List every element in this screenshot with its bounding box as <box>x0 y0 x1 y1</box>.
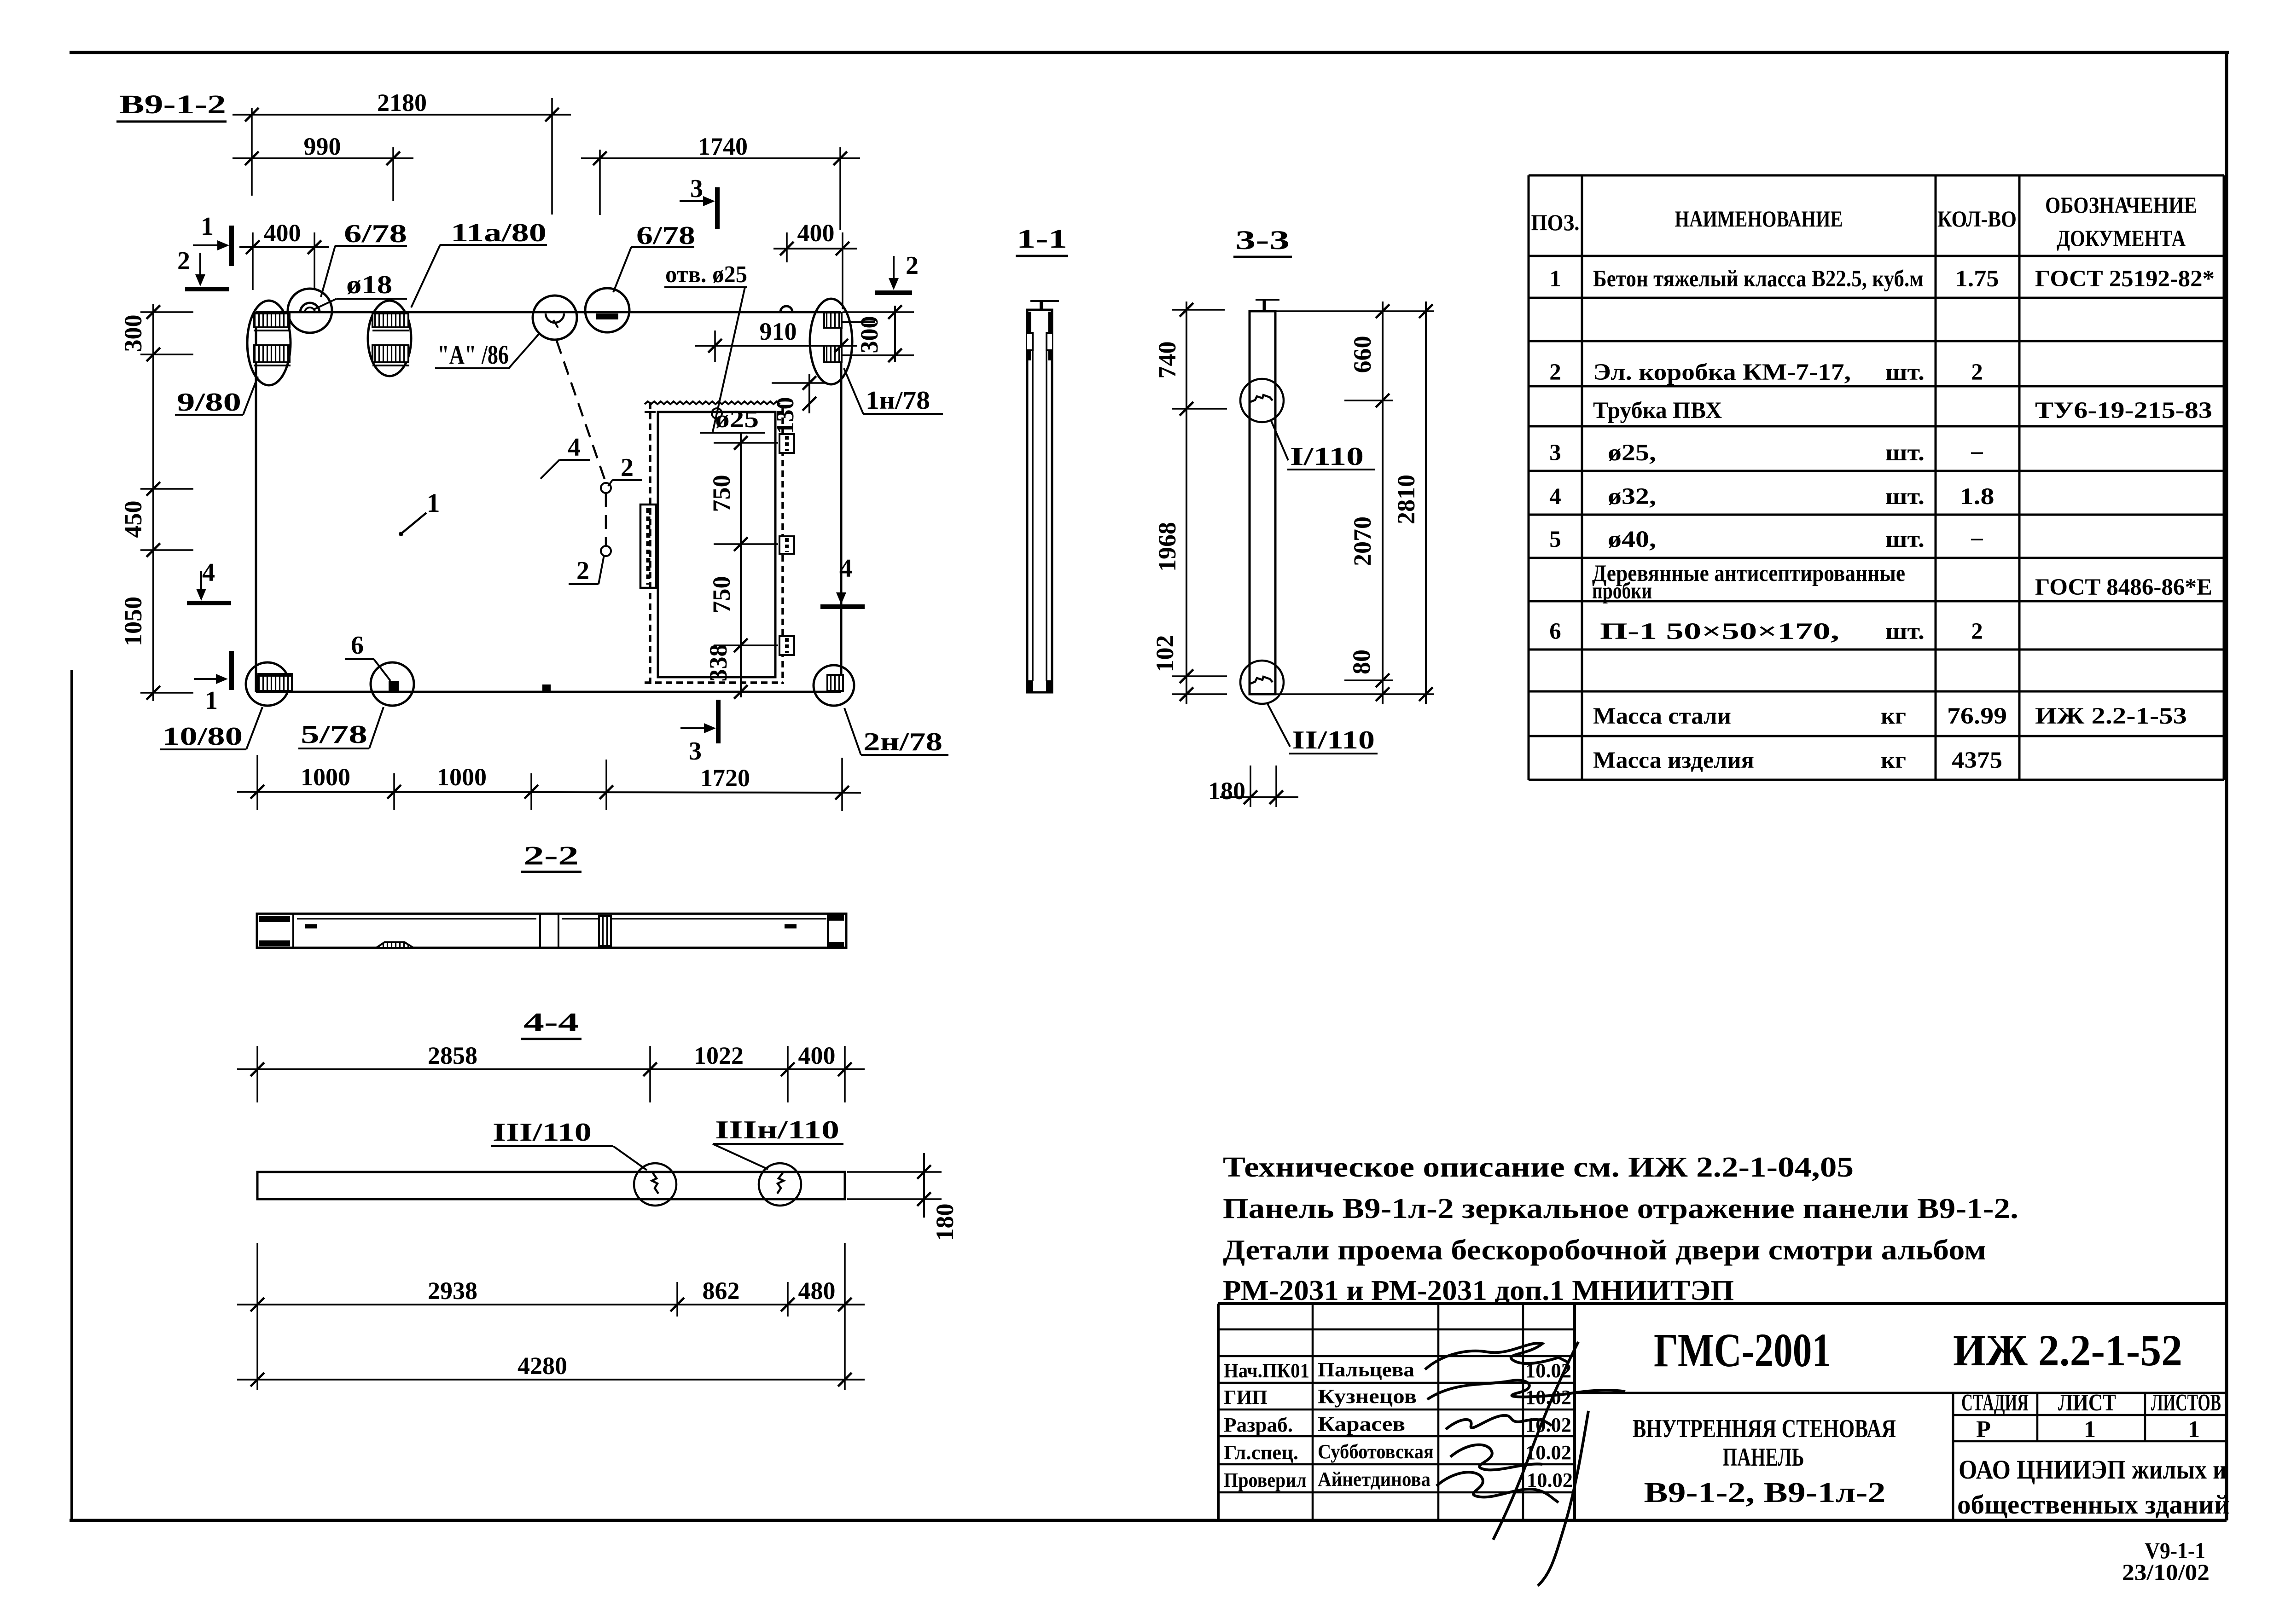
svg-text:300: 300 <box>119 315 147 352</box>
section 1-1 bottom marks <box>1027 680 1033 691</box>
signature Ainetdinova <box>1436 1472 1558 1502</box>
dim 300 right <box>843 311 914 313</box>
section 4-4 dim 180 <box>847 1171 942 1173</box>
svg-text:1720: 1720 <box>700 764 750 792</box>
svg-text:Нач.ПК01: Нач.ПК01 <box>1224 1359 1309 1382</box>
svg-text:2: 2 <box>1549 360 1561 385</box>
dim 400 right <box>786 232 788 262</box>
svg-text:III/110: III/110 <box>493 1118 592 1147</box>
svg-text:Разраб.: Разраб. <box>1224 1414 1293 1436</box>
svg-text:шт.: шт. <box>1885 484 1925 510</box>
detail circle II/110 <box>1240 661 1284 704</box>
svg-text:Субботовская: Субботовская <box>1318 1440 1434 1463</box>
svg-text:6: 6 <box>1549 619 1561 644</box>
svg-text:2: 2 <box>576 557 589 585</box>
svg-text:СТАДИЯ: СТАДИЯ <box>1961 1390 2029 1416</box>
dim 400 left <box>252 232 254 290</box>
svg-text:кг: кг <box>1881 748 1906 773</box>
svg-text:9/80: 9/80 <box>177 388 241 417</box>
title block stage box <box>1952 1393 1954 1520</box>
svg-text:1.8: 1.8 <box>1960 484 1994 510</box>
svg-text:23/10/02: 23/10/02 <box>2122 1559 2210 1585</box>
svg-text:6/78: 6/78 <box>344 220 407 248</box>
door opening zigzag top edge <box>645 401 780 404</box>
section 3-3 overall dim 2810 <box>1425 302 1427 704</box>
svg-text:ЛИСТОВ: ЛИСТОВ <box>2151 1390 2221 1416</box>
svg-text:шт.: шт. <box>1885 360 1925 385</box>
svg-text:4-4: 4-4 <box>523 1007 579 1037</box>
dim 910 <box>714 331 716 362</box>
svg-text:2: 2 <box>1971 360 1983 385</box>
svg-text:11а/80: 11а/80 <box>451 219 547 247</box>
svg-text:В9-1-2: В9-1-2 <box>119 89 226 119</box>
section 2-2 bar <box>257 914 846 948</box>
svg-text:ГМС-2001: ГМС-2001 <box>1654 1324 1831 1377</box>
svg-text:ЛИСТ: ЛИСТ <box>2058 1390 2116 1416</box>
svg-text:2: 2 <box>1971 619 1983 644</box>
svg-text:ДОКУМЕНТА: ДОКУМЕНТА <box>2057 225 2186 251</box>
detail circle 6/78 no.1 <box>288 289 332 333</box>
svg-text:Пальцева: Пальцева <box>1318 1358 1414 1381</box>
svg-text:Карасев: Карасев <box>1318 1413 1405 1435</box>
svg-text:1000: 1000 <box>437 763 487 791</box>
svg-text:4375: 4375 <box>1952 748 2002 773</box>
svg-text:пробки: пробки <box>1592 578 1652 604</box>
dim 1740 <box>599 150 601 215</box>
svg-text:Айнетдинова: Айнетдинова <box>1318 1468 1430 1491</box>
svg-text:750: 750 <box>708 576 735 614</box>
svg-text:Р: Р <box>1976 1416 1991 1443</box>
svg-text:6: 6 <box>351 631 364 660</box>
section 1-1 waist notches <box>1027 333 1033 350</box>
svg-text:Гл.спец.: Гл.спец. <box>1224 1441 1298 1464</box>
section 4-4 bottom dim chain 2938/862/480 <box>256 1243 258 1390</box>
embed detail 1n/78 oval (top-right) <box>810 299 852 384</box>
svg-text:ГИП: ГИП <box>1224 1386 1268 1409</box>
section 2-2 bottom wedge (5/78) <box>376 942 413 948</box>
section 3-3 dim 180 bottom <box>1250 766 1251 807</box>
signature long flourish 2 <box>1538 1411 1588 1586</box>
svg-text:80: 80 <box>1348 650 1375 674</box>
svg-text:3-3: 3-3 <box>1235 225 1290 255</box>
door hinge anchor squares right <box>779 434 794 453</box>
svg-text:ø25,: ø25, <box>1608 440 1656 466</box>
svg-text:Бетон тяжелый класса В22.5, ку: Бетон тяжелый класса В22.5, куб.м <box>1593 266 1924 292</box>
svg-text:130: 130 <box>771 397 799 435</box>
svg-text:2н/78: 2н/78 <box>863 728 942 756</box>
svg-text:IIIн/110: IIIн/110 <box>715 1116 839 1144</box>
svg-text:2938: 2938 <box>428 1277 477 1305</box>
svg-text:660: 660 <box>1349 336 1376 373</box>
svg-text:400: 400 <box>798 1042 836 1069</box>
svg-text:2: 2 <box>621 453 634 482</box>
signature long flourish 1 <box>1493 1342 1578 1540</box>
svg-text:1000: 1000 <box>301 763 350 791</box>
svg-text:4280: 4280 <box>518 1352 567 1380</box>
sheet right border <box>2225 52 2228 1520</box>
section 3-3 column <box>1250 311 1275 694</box>
svg-text:6/78: 6/78 <box>636 221 695 250</box>
signature Subbotovskaya <box>1450 1445 1542 1470</box>
plug square bottom middle <box>542 684 551 692</box>
section 3-3 lifting loop <box>1256 299 1279 301</box>
tube junction circle upper <box>601 483 611 493</box>
svg-text:400: 400 <box>797 219 835 247</box>
section 1-1 column <box>1027 310 1052 692</box>
sheet left border (lower part) <box>70 670 73 1520</box>
svg-text:180: 180 <box>931 1204 959 1241</box>
svg-text:ø40,: ø40, <box>1608 527 1656 552</box>
svg-text:910: 910 <box>760 318 797 345</box>
svg-text:102: 102 <box>1151 635 1179 673</box>
svg-text:2-2: 2-2 <box>523 841 579 870</box>
svg-text:1: 1 <box>427 488 440 518</box>
hole otv d25 <box>712 408 722 418</box>
svg-text:РМ-2031 и РМ-2031 доп.1 МНИИТЭ: РМ-2031 и РМ-2031 доп.1 МНИИТЭП <box>1223 1275 1734 1306</box>
sheet bottom border <box>70 1519 2227 1522</box>
svg-text:Проверил: Проверил <box>1224 1469 1307 1491</box>
svg-text:П-1 50×50×170,: П-1 50×50×170, <box>1600 619 1839 644</box>
door opening outer left dashed edge <box>649 402 651 684</box>
svg-text:ПОЗ.: ПОЗ. <box>1531 209 1580 235</box>
svg-text:ИЖ 2.2-1-53: ИЖ 2.2-1-53 <box>2035 703 2187 729</box>
section 4-4 overall dim 4280 <box>237 1379 865 1380</box>
svg-text:76.99: 76.99 <box>1947 703 2007 729</box>
svg-text:3: 3 <box>1549 440 1561 466</box>
detail circle III/110 <box>634 1163 676 1206</box>
svg-text:НАИМЕНОВАНИЕ: НАИМЕНОВАНИЕ <box>1675 206 1843 232</box>
svg-text:1н/78: 1н/78 <box>866 386 930 415</box>
svg-text:ТУ6-19-215-83: ТУ6-19-215-83 <box>2035 398 2212 423</box>
svg-text:1: 1 <box>2188 1416 2200 1443</box>
svg-text:–: – <box>1971 438 1983 464</box>
section 2-2 left end block <box>292 914 294 948</box>
svg-text:2180: 2180 <box>377 89 427 116</box>
svg-text:Масса изделия: Масса изделия <box>1593 748 1754 773</box>
section 1-1 lifting loop <box>1030 300 1059 302</box>
svg-text:–: – <box>1971 525 1983 551</box>
panel B9-1-2 outline <box>256 311 841 313</box>
label I/110 <box>1271 420 1288 460</box>
section 2-2 middle hole lines <box>539 914 541 948</box>
svg-text:Эл. коробка КМ-7-17,: Эл. коробка КМ-7-17, <box>1593 360 1851 385</box>
dim 130 <box>772 382 827 384</box>
svg-text:Кузнецов: Кузнецов <box>1318 1385 1417 1408</box>
svg-text:5/78: 5/78 <box>301 720 367 749</box>
svg-text:1968: 1968 <box>1153 522 1181 572</box>
svg-text:750: 750 <box>708 475 735 512</box>
svg-text:ПАНЕЛЬ: ПАНЕЛЬ <box>1723 1443 1804 1472</box>
svg-text:1-1: 1-1 <box>1017 224 1067 254</box>
svg-text:Панель В9-1л-2 зеркальное отра: Панель В9-1л-2 зеркальное отражение пане… <box>1223 1193 2018 1224</box>
dim 2180 <box>251 108 253 196</box>
svg-text:300: 300 <box>855 316 883 354</box>
svg-text:2810: 2810 <box>1392 475 1420 524</box>
svg-text:кг: кг <box>1881 703 1906 729</box>
svg-text:2: 2 <box>906 251 919 280</box>
svg-text:ИЖ 2.2-1-52: ИЖ 2.2-1-52 <box>1953 1326 2182 1375</box>
svg-text:4: 4 <box>1549 484 1561 510</box>
bottom dim chain 1000/1000/1720 <box>256 755 258 810</box>
dim 990 <box>392 147 394 201</box>
embed detail 11a/80 oval <box>368 301 411 376</box>
svg-text:общественных зданий: общественных зданий <box>1957 1490 2230 1520</box>
svg-text:740: 740 <box>1153 342 1181 379</box>
svg-text:Детали проема бескоробочной дв: Детали проема бескоробочной двери смотри… <box>1223 1235 1986 1266</box>
svg-text:В9-1-2, В9-1л-2: В9-1-2, В9-1л-2 <box>1644 1477 1886 1508</box>
dashed tube run vertical <box>605 493 607 546</box>
svg-text:ОАО ЦНИИЭП жилых и: ОАО ЦНИИЭП жилых и <box>1959 1455 2227 1485</box>
door opening outer bottom dashed edge <box>645 681 783 684</box>
svg-text:ø32,: ø32, <box>1608 484 1656 510</box>
signature Paltseva <box>1425 1343 1568 1369</box>
svg-text:КОЛ-ВО: КОЛ-ВО <box>1937 206 2017 232</box>
section 3-3 left dim chain 740/1968/102 <box>1186 302 1187 704</box>
section 4-4 bar <box>257 1172 845 1199</box>
svg-text:II/110: II/110 <box>1292 726 1375 754</box>
svg-text:шт.: шт. <box>1885 619 1925 644</box>
svg-text:990: 990 <box>304 133 341 160</box>
svg-text:2: 2 <box>177 247 190 275</box>
embed detail 9/80 oval (top-left) <box>247 301 291 385</box>
tube junction circle lower <box>601 546 611 556</box>
svg-text:"А" /86: "А" /86 <box>437 340 509 370</box>
detail circle IIIn/110 <box>759 1163 801 1206</box>
svg-text:ОБОЗНАЧЕНИЕ: ОБОЗНАЧЕНИЕ <box>2045 192 2197 218</box>
svg-text:шт.: шт. <box>1885 527 1925 552</box>
title block signature grid <box>1218 1328 1575 1331</box>
svg-text:ВНУТРЕННЯЯ СТЕНОВАЯ: ВНУТРЕННЯЯ СТЕНОВАЯ <box>1633 1415 1896 1443</box>
section 1-1 top embed marks <box>1027 312 1031 360</box>
title block central divider <box>1573 1304 1576 1520</box>
svg-text:ГОСТ 8486-86*Е: ГОСТ 8486-86*Е <box>2035 574 2212 600</box>
svg-text:180: 180 <box>1208 777 1245 805</box>
section 2-2 hatched embed (11a) <box>599 916 611 946</box>
dashed tube run 4 from A/86 <box>557 341 606 483</box>
svg-text:ø18: ø18 <box>346 271 392 299</box>
svg-text:1740: 1740 <box>698 133 748 160</box>
detail circle I/110 <box>1240 379 1284 422</box>
embed 9/80 hatched plates <box>254 313 290 327</box>
detail circle 5/78 <box>371 662 414 706</box>
title block outline <box>1218 1302 2227 1305</box>
spec table grid <box>1529 174 2224 177</box>
svg-text:Масса стали: Масса стали <box>1593 703 1731 729</box>
embed 11a/80 hatched plates <box>372 313 408 327</box>
door opening inner rectangle <box>658 412 775 677</box>
detail circle A/86 <box>533 296 577 340</box>
svg-text:3: 3 <box>689 737 702 766</box>
svg-text:450: 450 <box>119 501 147 538</box>
svg-text:5: 5 <box>1549 527 1561 552</box>
svg-text:1: 1 <box>205 686 218 715</box>
detail circle 2n/78 (bottom-right) <box>814 665 854 706</box>
svg-text:862: 862 <box>703 1277 740 1305</box>
svg-text:1: 1 <box>1549 266 1561 292</box>
svg-text:Техническое описание см. ИЖ 2: Техническое описание см. ИЖ 2.2-1-04,05 <box>1223 1152 1854 1183</box>
section 4-4 top dim chain 2858/1022/400 <box>256 1046 258 1102</box>
section 2-2 left dash <box>305 924 317 928</box>
svg-text:1.75: 1.75 <box>1955 266 1999 292</box>
svg-text:2070: 2070 <box>1349 516 1376 566</box>
svg-text:1050: 1050 <box>119 597 147 646</box>
svg-text:ø25: ø25 <box>715 405 759 433</box>
left dim chain 300/450/1050 <box>152 304 154 701</box>
lifting loop right <box>780 306 792 312</box>
door opening outer right dashed edge <box>781 407 784 684</box>
svg-text:400: 400 <box>264 219 301 247</box>
lifting loop d18 <box>300 303 320 313</box>
signature Karasev <box>1446 1415 1552 1429</box>
svg-text:338: 338 <box>704 644 732 682</box>
embed detail 10/80 circle (bottom-left) <box>246 662 289 706</box>
svg-text:10/80: 10/80 <box>162 722 243 751</box>
svg-text:1: 1 <box>201 212 214 241</box>
door opening hidden top dashed line <box>645 411 780 413</box>
svg-text:4: 4 <box>568 433 581 462</box>
svg-text:ГОСТ 25192-82*: ГОСТ 25192-82* <box>2035 266 2215 292</box>
svg-text:4: 4 <box>202 558 215 587</box>
section 2-2 right dash <box>785 924 797 928</box>
section 3-3 right dim chain 660/2070/80 <box>1382 302 1384 704</box>
svg-text:2858: 2858 <box>428 1042 477 1069</box>
embed 1n/78 hatched plates <box>824 313 842 328</box>
svg-text:480: 480 <box>798 1277 836 1305</box>
svg-text:шт.: шт. <box>1885 440 1925 466</box>
detail circle 6/78 no.2 <box>585 288 629 332</box>
svg-text:3: 3 <box>690 174 703 203</box>
label II/110 <box>1267 703 1290 747</box>
svg-text:1022: 1022 <box>694 1042 744 1069</box>
svg-text:Трубка ПВХ: Трубка ПВХ <box>1593 398 1722 423</box>
signature Kuznetsov <box>1427 1380 1625 1399</box>
door lock anchor box left <box>640 505 656 588</box>
svg-text:I/110: I/110 <box>1290 442 1364 471</box>
sheet top border <box>70 51 2229 54</box>
svg-text:1: 1 <box>2084 1416 2096 1443</box>
section 2-2 right end block <box>829 915 844 921</box>
door dim chain 750/750/338 <box>740 433 742 697</box>
svg-text:отв. ø25: отв. ø25 <box>665 261 747 288</box>
